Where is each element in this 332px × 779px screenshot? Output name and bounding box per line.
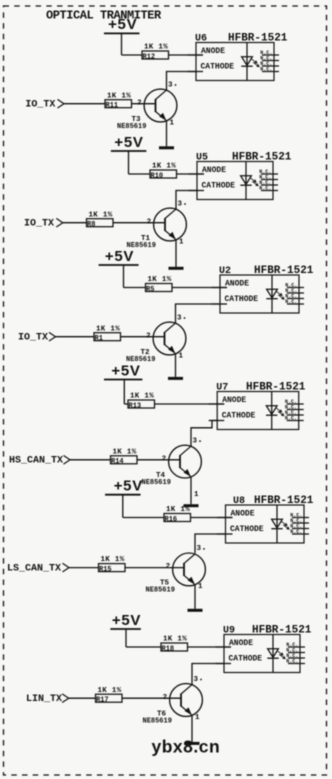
svg-text:N.C.: N.C. [290,529,302,535]
svg-text:R15: R15 [99,566,112,574]
svg-text:CATHODE: CATHODE [201,63,235,72]
svg-text:1: 1 [194,491,199,499]
svg-text:CATHODE: CATHODE [225,295,259,304]
svg-text:CATHODE: CATHODE [202,182,236,191]
svg-text:ANODE: ANODE [225,279,249,288]
svg-text:R8: R8 [87,221,95,229]
svg-text:OPTICAL TRANMITER: OPTICAL TRANMITER [46,9,162,23]
svg-text:ybx8.cn: ybx8.cn [152,737,221,757]
svg-text:R18: R18 [162,645,175,653]
svg-text:IO_TX: IO_TX [24,219,54,230]
svg-text:HFBR-1521: HFBR-1521 [232,152,292,164]
svg-text:R13: R13 [129,402,142,410]
svg-text:+5V: +5V [114,478,143,495]
svg-text:LIN_TX: LIN_TX [26,694,62,705]
svg-text:U5: U5 [196,153,208,164]
svg-text:1K 1%: 1K 1% [96,325,120,333]
svg-text:N.C.: N.C. [260,67,272,73]
svg-text:3: 3 [168,81,173,89]
svg-text:IO_TX: IO_TX [25,100,55,111]
svg-text:ANODE: ANODE [229,639,253,648]
svg-text:U2: U2 [219,266,231,277]
svg-text:ANODE: ANODE [201,47,225,56]
svg-text:1K 1%: 1K 1% [152,163,176,171]
svg-text:1: 1 [179,238,184,246]
svg-text:HS_CAN_TX: HS_CAN_TX [9,456,63,467]
svg-text:1K 1%: 1K 1% [144,44,168,52]
svg-text:+5V: +5V [114,134,143,151]
svg-text:U9: U9 [223,626,235,637]
svg-text:1: 1 [179,352,184,360]
svg-text:1K 1%: 1K 1% [148,276,172,284]
svg-text:R17: R17 [96,697,109,705]
svg-text:HFBR-1521: HFBR-1521 [228,33,288,45]
svg-text:HFBR-1521: HFBR-1521 [254,265,314,277]
svg-text:3: 3 [194,676,199,684]
svg-text:NE85619: NE85619 [146,587,175,595]
svg-text:1: 1 [195,714,200,722]
svg-text:U7: U7 [216,383,228,394]
svg-text:CATHODE: CATHODE [230,525,264,534]
svg-text:N.C.: N.C. [259,186,271,192]
svg-text:+5V: +5V [105,248,134,265]
svg-text:R10: R10 [151,172,164,180]
svg-text:1K 1%: 1K 1% [130,393,154,401]
svg-text:+5V: +5V [111,362,140,379]
svg-text:CATHODE: CATHODE [222,412,256,421]
svg-text:R11: R11 [106,102,119,110]
svg-text:HFBR-1521: HFBR-1521 [246,382,306,394]
svg-text:1K 1%: 1K 1% [163,636,187,644]
svg-text:1K 1%: 1K 1% [101,556,125,564]
svg-text:R12: R12 [143,53,156,61]
svg-text:R5: R5 [146,286,154,294]
svg-text:IO_TX: IO_TX [18,333,48,344]
svg-text:+5V: +5V [112,612,141,629]
svg-text:U6: U6 [195,34,207,45]
svg-text:NE85619: NE85619 [117,123,146,131]
svg-text:3: 3 [197,545,202,553]
svg-text:1K 1%: 1K 1% [98,687,122,695]
svg-text:R14: R14 [111,458,124,466]
svg-text:N.C.: N.C. [285,416,297,422]
svg-text:1K 1%: 1K 1% [89,211,113,219]
svg-text:1K 1%: 1K 1% [107,92,131,100]
svg-text:HFBR-1521: HFBR-1521 [252,625,312,637]
svg-text:ANODE: ANODE [222,396,246,405]
svg-text:1K 1%: 1K 1% [166,506,190,514]
svg-text:ANODE: ANODE [202,166,226,175]
svg-text:+5V: +5V [108,16,137,33]
svg-text:1: 1 [198,583,203,591]
svg-text:1: 1 [170,119,175,127]
svg-text:ANODE: ANODE [231,509,255,518]
svg-text:3: 3 [177,314,182,322]
svg-text:HFBR-1521: HFBR-1521 [254,495,314,507]
svg-text:U8: U8 [233,496,245,507]
svg-text:LS_CAN_TX: LS_CAN_TX [7,563,61,574]
svg-text:CATHODE: CATHODE [229,655,263,664]
svg-text:R16: R16 [165,516,178,524]
svg-text:NE85619: NE85619 [143,717,172,725]
svg-text:R1: R1 [95,335,103,343]
svg-text:3: 3 [178,200,183,208]
svg-text:NE85619: NE85619 [142,479,171,487]
svg-text:3: 3 [193,437,198,445]
svg-text:1K 1%: 1K 1% [113,448,137,456]
svg-text:N.C.: N.C. [285,299,297,305]
svg-text:N.C.: N.C. [286,659,298,665]
